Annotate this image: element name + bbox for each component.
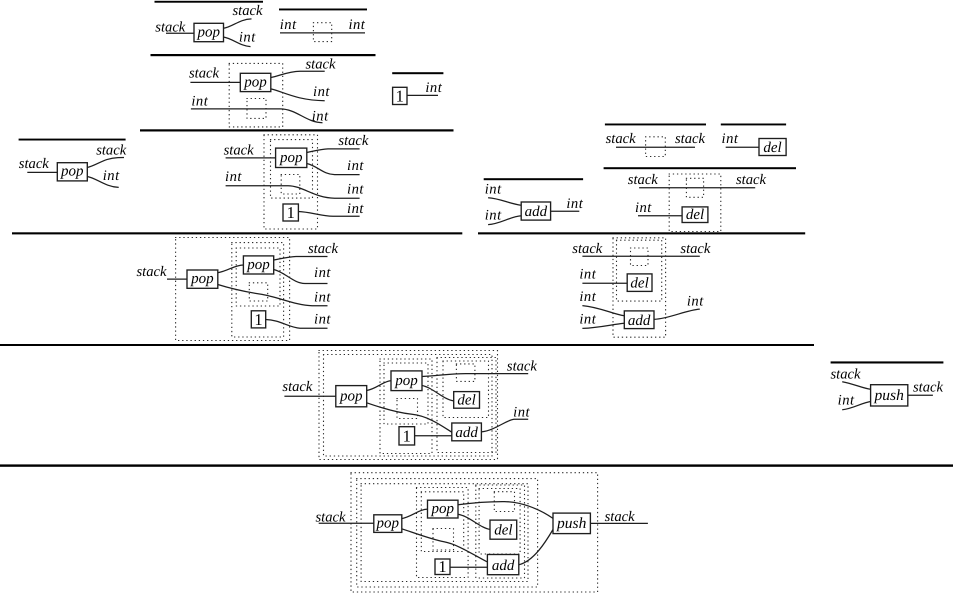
svg-text:int: int [425, 80, 442, 96]
wire stack output of pop [224, 19, 252, 28]
dotted tick box inside row-2 diagram [247, 99, 266, 119]
wire 1 into add row 6 [450, 566, 487, 568]
svg-text:int: int [635, 200, 652, 216]
dotted outermost box row 6 [351, 473, 598, 592]
box del (row 6) [490, 520, 517, 539]
box del (row 4 right) [627, 274, 652, 292]
svg-text:pop: pop [431, 501, 455, 517]
wire pop2 over tick into push row 6 [458, 502, 553, 519]
svg-text:int: int [347, 158, 364, 174]
box pop (row 6 second) [428, 500, 459, 518]
svg-text:int: int [348, 17, 365, 33]
wire int into del (row 4 right) [582, 282, 627, 284]
svg-text:pop: pop [339, 388, 363, 404]
wire stack input row 3 centre [226, 157, 276, 159]
svg-text:stack: stack [675, 131, 706, 147]
svg-text:stack: stack [224, 143, 255, 159]
box pop (row 4 first) [187, 270, 218, 288]
svg-text:int: int [347, 201, 364, 217]
inference bar under row 4 [0, 344, 814, 346]
dotted second box row 6 [357, 479, 538, 587]
wire int into add upper (row 4 right) [582, 306, 624, 316]
box del (composite) [682, 207, 708, 223]
wire stack output through tick to the right row 5 [422, 374, 528, 377]
dotted right-group outer box row 5 [437, 358, 496, 453]
box 1 (row 5) [399, 427, 415, 445]
svg-text:pop: pop [243, 74, 267, 90]
box del (intro) [759, 139, 786, 156]
wire int output of pop row 2 [271, 89, 325, 101]
wire int into del [726, 146, 759, 148]
wire stack through row 4 right [582, 255, 699, 257]
box 1 (row 3 centre) [283, 204, 298, 221]
wire int output of 1 [407, 94, 438, 96]
svg-text:1: 1 [396, 87, 404, 106]
wire pop1 through tick into add row 5 [367, 403, 452, 432]
wire int output of pop [224, 37, 251, 47]
svg-text:del: del [686, 207, 704, 223]
svg-text:pop: pop [190, 271, 214, 287]
dotted right-group inner box row 5 [443, 361, 489, 418]
svg-text:del: del [457, 393, 475, 409]
dotted tick box below pop2 row 6 [433, 529, 454, 551]
wire int first input into add [488, 198, 521, 206]
svg-text:stack: stack [308, 241, 339, 257]
wire int output left pop [87, 177, 118, 188]
wire int second input into add [488, 216, 521, 225]
wire add output row 5 [481, 419, 528, 432]
svg-text:add: add [455, 425, 478, 441]
wire pop1 to pop2 row 6 [402, 509, 428, 518]
svg-text:int: int [579, 289, 596, 305]
svg-text:int: int [722, 131, 739, 147]
svg-text:int: int [312, 109, 329, 125]
dotted outer box row 4 right [613, 238, 666, 337]
dotted middle-group outer box row 5 [380, 359, 432, 454]
dotted tick box row 3 centre [281, 175, 300, 195]
svg-text:push: push [556, 515, 587, 532]
wire stack input into pop [166, 32, 194, 34]
wire stack identity [616, 146, 695, 148]
dotted right-group outer box row 6 [476, 485, 525, 578]
wire int first output row 4 centre [274, 270, 328, 284]
dotted inner box row 3 centre [271, 140, 313, 199]
wire stack output row 4 centre [274, 257, 328, 261]
svg-text:del: del [494, 523, 512, 539]
inference bar over stack-identity diagram [605, 124, 706, 126]
svg-text:1: 1 [254, 310, 262, 329]
svg-text:add: add [525, 204, 548, 220]
inference bar over del-intro diagram [721, 124, 786, 126]
box add (row 6) [487, 555, 518, 575]
svg-text:int: int [579, 267, 596, 283]
wire pop2 to del row 6 [458, 514, 490, 529]
dotted box around pop-tensor-tick [229, 63, 283, 127]
wire stack through composite [639, 187, 755, 189]
wire int output of add (row 4 right) [654, 309, 700, 319]
dotted inner box row 4 centre [236, 248, 280, 306]
svg-text:int: int [280, 17, 297, 33]
dotted tick box row 4 centre [249, 283, 267, 301]
inference bar under row 3 (right) [478, 232, 805, 234]
dotted outermost box row 5 centre [319, 351, 498, 460]
svg-text:int: int [103, 168, 120, 184]
wire int output of add [551, 210, 580, 212]
svg-text:stack: stack [736, 172, 767, 188]
svg-text:add: add [628, 313, 651, 329]
svg-text:int: int [513, 405, 530, 421]
svg-text:pop: pop [246, 257, 270, 273]
box pop (row 3 left) [57, 163, 87, 181]
dotted second box row 5 centre [324, 355, 493, 457]
inference bar under row 2 [140, 129, 454, 131]
wire int into add lower (row 4 right) [582, 323, 624, 328]
svg-text:int: int [347, 182, 364, 198]
svg-text:pop: pop [196, 24, 220, 40]
inference bar under row 3 (left) [12, 232, 462, 234]
dotted middle-group inner box row 6 [421, 492, 463, 552]
svg-text:stack: stack [233, 3, 264, 19]
wire int output of 1 row 3 centre [298, 212, 359, 217]
svg-text:add: add [492, 558, 515, 574]
box add (row 5) [452, 423, 482, 441]
inference bar over pop-intro diagram [155, 1, 264, 3]
inference bar over add-intro diagram [484, 178, 583, 180]
box pop (row 3 centre) [276, 148, 307, 167]
wire stack output left pop [87, 158, 124, 168]
dotted tick box row 4 right [631, 248, 649, 266]
wire stack output of push [908, 394, 933, 396]
svg-text:stack: stack [19, 156, 50, 172]
inference bar over push diagram [831, 361, 944, 363]
box pop (row 2) [240, 73, 270, 91]
svg-text:1: 1 [438, 557, 446, 576]
dotted middle-group outer box row 6 [417, 488, 469, 578]
svg-text:int: int [687, 293, 704, 309]
svg-text:int: int [485, 182, 502, 198]
svg-text:int: int [313, 84, 330, 100]
svg-text:pop: pop [279, 150, 303, 166]
box pop (row 6 first) [374, 515, 402, 533]
inference bar over left pop diagram [19, 139, 126, 141]
svg-text:del: del [630, 276, 648, 292]
inference bar over 1-intro diagram [392, 72, 443, 74]
box pop (row 4 second) [243, 256, 273, 274]
wire stack input row 5 [284, 395, 335, 397]
dotted tick box in del group row 6 [494, 492, 514, 512]
box add (row 4 right) [624, 311, 654, 329]
svg-text:int: int [579, 311, 596, 327]
inference bar under row 5 (full width) [0, 464, 953, 466]
box 1 (row 6) [435, 559, 450, 575]
inference bar over int-identity diagram [279, 9, 367, 11]
box 1 (row 4 centre) [251, 311, 265, 328]
wire 1 into add row 5 [415, 435, 452, 437]
dotted third box row 6 [361, 484, 528, 582]
svg-text:pop: pop [394, 373, 418, 389]
svg-text:stack: stack [831, 366, 862, 382]
svg-text:stack: stack [913, 379, 944, 395]
dotted right-group inner box row 6 [479, 489, 520, 555]
svg-text:int: int [314, 265, 331, 281]
wire int second output through tick (row 4 centre) [218, 285, 328, 306]
svg-text:1: 1 [403, 427, 411, 446]
box pop (row 5 second) [391, 371, 422, 391]
wire int output of 1 (row 4 centre) [266, 320, 328, 329]
svg-text:int: int [225, 169, 242, 185]
box push (row 6) [553, 513, 590, 534]
svg-text:push: push [874, 387, 905, 404]
wire stack output row 3 centre [307, 149, 360, 153]
svg-text:pop: pop [60, 164, 84, 180]
wire pop1 to pop2 row 5 [367, 381, 391, 391]
dotted middle-group inner box row 5 [384, 363, 428, 424]
dotted inner box row 4 right [617, 240, 662, 301]
svg-text:stack: stack [606, 131, 637, 147]
dotted outer box row 3 centre [264, 135, 318, 229]
box push [871, 385, 908, 406]
svg-text:stack: stack [507, 359, 538, 375]
dotted tick box on stack identity [646, 137, 666, 157]
dotted outer box row 4 centre [176, 238, 290, 341]
svg-text:stack: stack [137, 264, 168, 280]
svg-text:int: int [191, 93, 208, 109]
dotted tick box below pop2 row 5 [397, 399, 418, 419]
wire stack input left pop [27, 171, 57, 173]
wire stack output row 6 [590, 522, 648, 524]
wire stack output row 2 [271, 71, 325, 77]
wire stack input row 4 centre [167, 278, 187, 280]
svg-text:stack: stack [306, 56, 337, 72]
svg-text:int: int [485, 207, 502, 223]
dotted tick box on int identity wire [313, 23, 331, 42]
svg-text:stack: stack [680, 241, 711, 257]
svg-text:stack: stack [189, 66, 220, 82]
dotted tick box in del group row 5 [456, 364, 475, 382]
svg-text:pop: pop [376, 515, 400, 531]
svg-text:int: int [314, 290, 331, 306]
wire int input through tick box descending to output [191, 109, 323, 123]
dotted middle box row 4 centre [232, 243, 284, 337]
wire pop2 to del row 5 [422, 386, 454, 401]
wire int input descending through tick to third output [226, 186, 360, 199]
inference bar under row 1 [151, 54, 376, 56]
wire stack input row 6 [319, 522, 374, 524]
wire int into del (composite) [638, 215, 682, 217]
svg-text:stack: stack [572, 241, 603, 257]
wire add into push row 6 [519, 530, 553, 565]
wire int identity [280, 32, 365, 34]
wire pop1 to pop2 (row 4 centre) [218, 265, 244, 273]
wire stack input row 2 [190, 81, 240, 83]
wire int first output row 3 centre [307, 164, 360, 175]
svg-text:int: int [314, 312, 331, 328]
wire pop1 through tick into add row 6 [402, 529, 488, 562]
box del (row 5) [454, 392, 480, 409]
wire int into push [842, 402, 870, 410]
svg-text:int: int [239, 30, 256, 46]
box 1 (constant) [393, 87, 407, 104]
svg-text:stack: stack [338, 133, 369, 149]
dotted box around stack-tensor-del [669, 174, 721, 232]
dotted tick box on stack wire (composite) [686, 178, 703, 197]
box pop (row 5 first) [336, 386, 367, 407]
svg-text:int: int [838, 393, 855, 409]
inference bar under stack-identity and del diagrams [604, 167, 796, 169]
svg-text:stack: stack [96, 142, 127, 158]
svg-text:stack: stack [628, 172, 659, 188]
svg-text:del: del [763, 140, 781, 156]
box pop (row 1) [194, 23, 224, 41]
svg-text:int: int [566, 196, 583, 212]
wire stack into push [842, 382, 870, 390]
svg-text:1: 1 [287, 203, 295, 222]
svg-text:stack: stack [605, 509, 636, 525]
box add (intro) [521, 202, 550, 220]
svg-text:stack: stack [282, 379, 313, 395]
